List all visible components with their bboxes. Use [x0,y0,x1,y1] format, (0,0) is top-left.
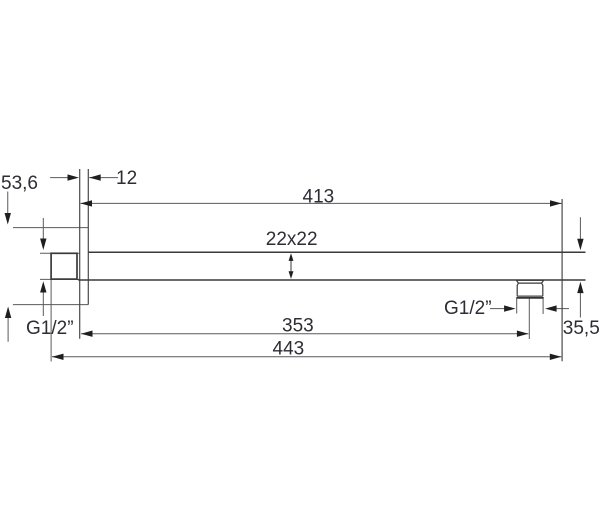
svg-text:22x22: 22x22 [266,229,318,250]
svg-text:12: 12 [116,168,137,189]
svg-text:353: 353 [282,315,314,336]
svg-text:G1/2”: G1/2” [444,298,492,319]
svg-text:413: 413 [303,186,335,207]
svg-text:G1/2”: G1/2” [26,318,74,339]
svg-text:443: 443 [273,339,305,360]
svg-text:35,5: 35,5 [563,318,600,339]
svg-text:53,6: 53,6 [1,173,38,194]
